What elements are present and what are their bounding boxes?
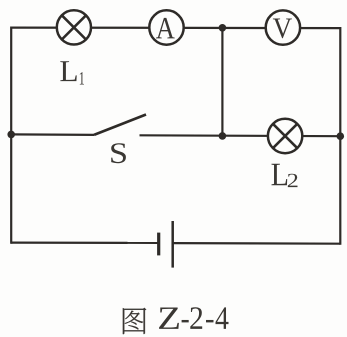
label S	[111, 143, 126, 163]
label L2	[271, 164, 287, 185]
junction node top	[219, 24, 227, 32]
wire branch vertical from A-V junction	[221, 28, 223, 136]
junction node right	[337, 132, 345, 140]
wire top rail	[11, 27, 340, 30]
voltmeter V	[266, 10, 300, 44]
wire bottom rail right of battery	[173, 242, 340, 245]
junction node middle	[219, 132, 227, 140]
caption Z	[159, 307, 179, 328]
junction node left	[7, 131, 15, 139]
battery negative plate (short)	[157, 233, 160, 256]
wire left vertical	[10, 27, 12, 244]
lamp L1	[57, 10, 91, 44]
wire bottom rail left of battery	[11, 242, 158, 244]
battery positive plate (long)	[171, 221, 174, 268]
caption hyphen 1	[182, 320, 189, 322]
ammeter A	[149, 10, 183, 44]
wire middle rail from switch to right rail	[140, 134, 341, 137]
switch S lever	[94, 115, 146, 135]
wire right vertical	[339, 27, 341, 245]
caption 4	[216, 307, 229, 329]
caption 2	[190, 307, 202, 329]
caption hanzi TU (figure)	[123, 308, 146, 334]
wire middle rail left of switch	[11, 133, 94, 136]
label L1	[60, 61, 76, 81]
caption hyphen 2	[206, 320, 214, 322]
lamp L2	[268, 119, 302, 153]
